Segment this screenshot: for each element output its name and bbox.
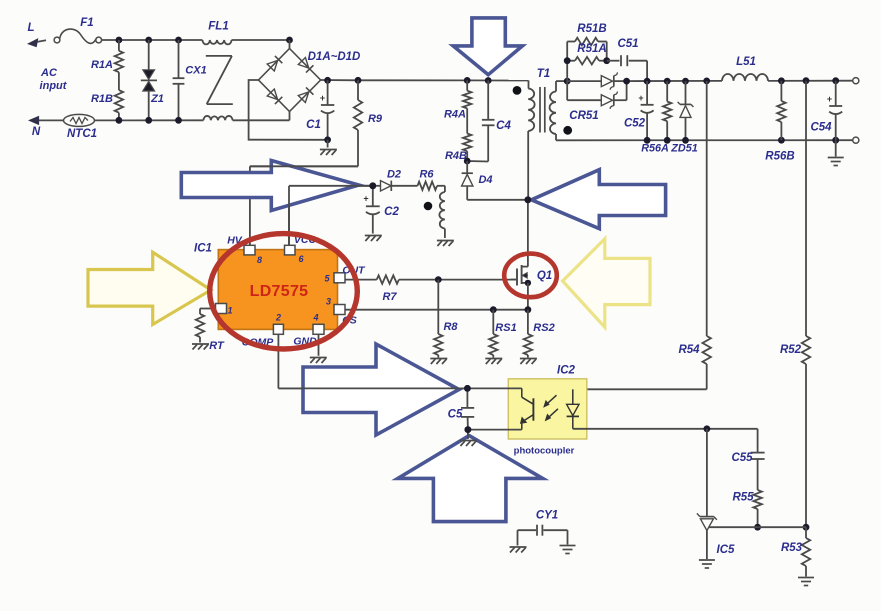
node COMP/C5 junction xyxy=(464,385,471,392)
svg-text:R55: R55 xyxy=(732,492,754,504)
diode D2 xyxy=(373,169,418,192)
resistor R6 xyxy=(418,169,445,191)
svg-text:photocoupler: photocoupler xyxy=(514,446,575,457)
transistor IC2 phototransistor xyxy=(467,388,533,429)
svg-text:C52: C52 xyxy=(624,118,646,130)
svg-text:R7: R7 xyxy=(382,291,397,303)
svg-text:CR51: CR51 xyxy=(569,110,598,122)
node R4B/C4/D4 junction xyxy=(464,158,471,165)
node secondary rail junctions xyxy=(623,78,710,85)
svg-text:T1: T1 xyxy=(537,68,550,80)
svg-text:R56B: R56B xyxy=(765,151,794,163)
svg-text:3: 3 xyxy=(326,297,331,307)
capacitor C52 xyxy=(624,81,654,140)
capacitor C5 xyxy=(448,388,475,429)
resistor R56A xyxy=(641,81,671,154)
ground C5 over arrow xyxy=(460,426,477,446)
node T1 secondary phase dot xyxy=(563,126,572,135)
highlight circle around Q1 xyxy=(504,254,557,298)
svg-text:4: 4 xyxy=(312,313,318,323)
svg-text:Q1: Q1 xyxy=(537,270,552,282)
node bottom rail junctions xyxy=(116,117,182,124)
ground (R8) xyxy=(430,359,447,365)
capacitor CX1 xyxy=(173,40,207,120)
svg-text:+: + xyxy=(363,194,368,204)
ground (C1) xyxy=(320,140,337,155)
wire rail after L51 xyxy=(768,80,853,82)
resistor R53 xyxy=(781,527,810,576)
diode CR51-A xyxy=(567,72,626,89)
svg-text:R51B: R51B xyxy=(577,23,606,35)
terminal L (line input) xyxy=(27,22,46,47)
ground (CY1 left) xyxy=(510,530,527,552)
wire top rail xyxy=(102,39,290,41)
label AC input xyxy=(40,67,68,92)
svg-text:C5: C5 xyxy=(448,409,463,421)
svg-text:input: input xyxy=(40,80,68,92)
capacitor C1 xyxy=(306,80,334,143)
ground (IC5) xyxy=(699,560,715,568)
wire secondary bottom rail xyxy=(556,134,853,140)
winding T1 auxiliary xyxy=(439,186,445,238)
transformer T1 primary xyxy=(528,68,550,131)
svg-text:R8: R8 xyxy=(443,321,458,333)
op-amp U2 IC2 photocoupler box xyxy=(508,365,587,457)
inductor L51 xyxy=(722,56,768,81)
svg-text:D2: D2 xyxy=(387,169,401,181)
terminal output negative xyxy=(853,137,859,143)
ground (RS2) xyxy=(520,359,537,365)
node drain junction over arrow xyxy=(525,196,532,203)
capacitor C2 xyxy=(363,186,399,234)
bridge rectifier D1A~D1D xyxy=(259,40,361,120)
svg-text:RS2: RS2 xyxy=(533,322,554,334)
zener ZD51 xyxy=(670,81,697,154)
node DC bus junctions xyxy=(324,77,491,84)
capacitor C51 xyxy=(607,38,647,81)
pin 4 GND xyxy=(293,313,324,348)
ground (C54 output) xyxy=(828,140,844,165)
node aux winding phase dot xyxy=(424,202,433,211)
svg-text:+: + xyxy=(320,93,325,103)
wire bottom rail xyxy=(95,119,290,121)
node R7/R8 junction xyxy=(435,276,442,283)
node C5 ground junction xyxy=(465,426,472,433)
wire secondary top xyxy=(556,81,567,91)
ground (CY1 right) xyxy=(560,530,576,553)
node T1 primary phase dot xyxy=(513,86,522,95)
svg-text:R54: R54 xyxy=(678,344,700,356)
svg-text:RS1: RS1 xyxy=(495,322,516,334)
resistor R7 xyxy=(377,275,399,303)
diode IC2 LED xyxy=(567,389,707,429)
resistor R51B xyxy=(567,23,607,61)
svg-text:CY1: CY1 xyxy=(536,510,558,522)
capacitor C54 xyxy=(810,81,842,141)
svg-text:R4B: R4B xyxy=(445,150,467,162)
ground (RT) xyxy=(192,344,209,350)
resistor R55 xyxy=(732,490,761,527)
resistor RS1 xyxy=(489,310,517,358)
wire OUT to gate xyxy=(345,279,511,281)
node CS junctions xyxy=(490,306,531,313)
resistor R56B xyxy=(765,81,794,163)
resistor R1A xyxy=(91,40,123,72)
wire Q1 gate xyxy=(511,279,518,281)
capacitor C4 xyxy=(467,81,511,162)
shunt regulator IC5 xyxy=(697,429,735,559)
resistor R51A xyxy=(567,43,607,65)
diode D1D (bridge bottom-right) xyxy=(298,87,313,102)
transformer T1 core xyxy=(540,87,545,133)
resistor RS2 xyxy=(524,310,555,358)
svg-text:R4A: R4A xyxy=(444,109,466,121)
annotation arrow (yellow left, Q1) xyxy=(563,239,650,327)
node VCC/D2/C2 junction xyxy=(369,182,376,189)
wire optocoupler cathode line xyxy=(707,429,758,453)
svg-text:CX1: CX1 xyxy=(185,65,206,77)
svg-text:2: 2 xyxy=(275,313,281,323)
annotation arrow (left, drain node) xyxy=(531,170,665,229)
wire R9-HV over arrow xyxy=(250,165,358,167)
resistor RT xyxy=(196,309,225,353)
resistor R4A xyxy=(444,80,471,120)
diode D1A (bridge top-left) xyxy=(267,56,282,71)
resistor R9 xyxy=(354,80,383,166)
annotation arrow (right, VCC supply) xyxy=(181,161,358,211)
wire COMP feedback xyxy=(278,334,467,388)
fuse F1 xyxy=(54,17,102,43)
wire COMP over arrow xyxy=(278,385,470,392)
highlight ellipse around IC1 xyxy=(210,234,358,349)
inductor FL1 (common-mode choke) xyxy=(203,21,233,121)
diode D1B (bridge top-right) xyxy=(298,58,313,73)
svg-text:D4: D4 xyxy=(478,174,492,186)
ground (GND pin) xyxy=(310,334,327,363)
svg-text:C54: C54 xyxy=(810,122,832,134)
node top rail junctions xyxy=(116,37,293,44)
svg-text:LD7575: LD7575 xyxy=(250,283,309,300)
wire VCC line over arrow xyxy=(289,182,376,245)
wire snubber left leg xyxy=(566,42,568,82)
svg-text:C55: C55 xyxy=(731,452,753,464)
node output rail junctions xyxy=(778,77,839,84)
wire bridge negative return xyxy=(249,80,328,140)
svg-text:IC1: IC1 xyxy=(194,243,212,255)
wire secondary rail xyxy=(627,80,722,82)
svg-text:+: + xyxy=(827,94,832,104)
svg-text:R1B: R1B xyxy=(91,93,113,105)
svg-text:Z1: Z1 xyxy=(150,93,164,105)
svg-text:C1: C1 xyxy=(306,119,321,131)
ground (aux winding) xyxy=(437,241,454,247)
svg-text:ZD51: ZD51 xyxy=(670,143,697,155)
varistor Z1 xyxy=(141,40,164,120)
diode D1C (bridge bottom-left) xyxy=(267,89,282,104)
ground (RS1) xyxy=(485,359,502,365)
thermistor NTC1 xyxy=(64,114,98,140)
svg-text:L: L xyxy=(27,22,34,34)
diode CR51-B (parallel) xyxy=(567,81,626,122)
terminal output positive xyxy=(853,78,859,84)
IC2 light arrows xyxy=(544,395,558,420)
transistor Q1 (MOSFET) xyxy=(511,265,552,310)
wire R54 to optocoupler xyxy=(573,388,707,390)
svg-text:IC5: IC5 xyxy=(717,544,736,556)
diode D4 xyxy=(462,161,493,200)
capacitor CY1 xyxy=(518,510,568,536)
svg-text:AC: AC xyxy=(40,67,58,79)
node secondary rail junction xyxy=(564,78,571,85)
capacitor C55 xyxy=(731,452,764,490)
pin 8 HV xyxy=(227,235,262,266)
transformer T1 secondary xyxy=(550,92,556,135)
pin 3 CS xyxy=(326,297,357,327)
wire DC bus xyxy=(321,80,529,89)
pin 1 RT xyxy=(216,304,233,316)
node R55/R53 junctions xyxy=(754,524,809,531)
resistor R8 xyxy=(434,280,458,358)
pin 6 VCC xyxy=(285,234,317,264)
ground (C5) xyxy=(460,430,477,446)
annotation arrow (yellow right, IC1) xyxy=(88,252,211,324)
svg-text:C4: C4 xyxy=(496,120,511,132)
svg-text:N: N xyxy=(32,126,41,138)
ground (R53) xyxy=(798,578,814,586)
resistor R54 xyxy=(678,81,710,389)
svg-text:RT: RT xyxy=(209,340,225,352)
svg-text:R51A: R51A xyxy=(577,43,606,55)
svg-text:R9: R9 xyxy=(368,113,383,125)
annotation arrow (down, input filter) xyxy=(453,18,522,75)
node IC5 junction xyxy=(704,425,711,432)
svg-text:IC2: IC2 xyxy=(557,365,576,377)
svg-text:R1A: R1A xyxy=(91,59,113,71)
wire reference line xyxy=(709,526,806,528)
svg-text:C2: C2 xyxy=(384,206,399,218)
resistor R52 xyxy=(780,81,810,528)
svg-text:1: 1 xyxy=(227,306,232,316)
node bottom rail junctions xyxy=(644,137,839,144)
svg-text:8: 8 xyxy=(257,255,262,265)
svg-text:FL1: FL1 xyxy=(208,21,228,33)
node drain/D4 junction xyxy=(525,196,532,203)
svg-text:R52: R52 xyxy=(780,344,802,356)
svg-text:L51: L51 xyxy=(736,56,756,68)
wire R9 to HV pin xyxy=(250,166,358,245)
wire VCC pin to D2 node xyxy=(289,186,373,246)
wire D4 to drain node xyxy=(467,199,528,201)
terminal N (neutral) xyxy=(30,117,65,138)
wire CS line xyxy=(345,309,528,311)
svg-text:R53: R53 xyxy=(781,542,803,554)
svg-text:R6: R6 xyxy=(419,169,434,181)
pin 5 OUT xyxy=(324,265,366,284)
op-amp U1 IC1 LD7575 body xyxy=(218,250,337,330)
svg-text:F1: F1 xyxy=(80,17,93,29)
svg-text:C51: C51 xyxy=(617,38,638,50)
annotation arrow (right, COMP) xyxy=(303,344,459,435)
svg-text:D1A~D1D: D1A~D1D xyxy=(308,51,361,63)
wire T1 primary to Q1 drain xyxy=(527,131,529,267)
svg-text:NTC1: NTC1 xyxy=(67,128,97,140)
svg-text:R56A: R56A xyxy=(641,143,669,155)
pin 2 COMP xyxy=(242,313,284,349)
svg-text:+: + xyxy=(638,93,643,103)
annotation arrow (up, C5 node) xyxy=(398,436,543,522)
resistor R4B xyxy=(445,108,471,161)
ground (C2) xyxy=(365,236,382,242)
label IC1 xyxy=(194,243,212,255)
node snubber junctions xyxy=(564,57,610,64)
resistor R1B xyxy=(91,72,123,120)
